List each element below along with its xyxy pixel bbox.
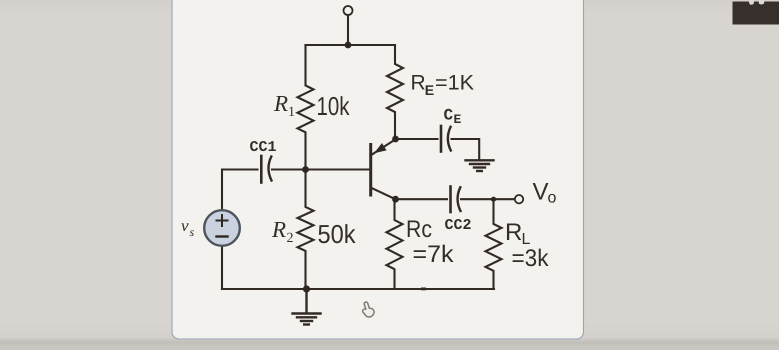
svg-text:2: 2	[287, 231, 294, 246]
svg-text:R: R	[411, 72, 426, 95]
svg-text:=1K: =1K	[435, 72, 474, 95]
wire emitter node to CE	[396, 138, 438, 140]
svg-text:CC1: CC1	[250, 139, 277, 156]
wire top rail	[306, 44, 396, 46]
node R2 bottom	[303, 285, 310, 292]
node RL top	[491, 197, 496, 202]
panel	[172, 0, 584, 339]
svg-text:s: s	[190, 225, 195, 239]
svg-text:CC2: CC2	[445, 217, 472, 234]
svg-text:C: C	[444, 107, 454, 125]
resistor RL	[486, 199, 502, 289]
svg-text:50k: 50k	[318, 219, 357, 249]
svg-text:v: v	[181, 216, 189, 235]
node top rail junction	[345, 42, 352, 49]
svg-text:R: R	[273, 91, 288, 116]
node base junction	[302, 166, 309, 173]
wire vs top	[222, 170, 258, 211]
svg-text:E: E	[425, 82, 434, 98]
wire bottom rail	[222, 288, 494, 290]
terminal Vo	[515, 195, 523, 203]
capacitor CE	[441, 126, 451, 152]
svg-text:R: R	[271, 217, 286, 242]
resistor RC	[387, 199, 403, 289]
wire CC1 to base node	[272, 168, 370, 170]
svg-text:10k: 10k	[317, 91, 351, 121]
transistor Q1	[371, 139, 396, 199]
black corner box	[733, 0, 779, 25]
svg-text:1: 1	[288, 105, 295, 120]
capacitor CC2	[451, 187, 461, 213]
resistor R1	[298, 45, 314, 170]
cursor hand	[363, 302, 374, 317]
node collector	[392, 196, 399, 203]
resistor R2	[298, 170, 314, 290]
svg-text:o: o	[548, 190, 557, 207]
ground main	[293, 289, 321, 325]
svg-text:E: E	[454, 112, 462, 127]
wire collector node to CC2	[396, 198, 448, 200]
terminal VCC top	[344, 6, 353, 15]
svg-text:=3k: =3k	[512, 245, 550, 272]
capacitor CC1	[261, 156, 271, 183]
wire CC2 to Vo	[461, 198, 515, 200]
node small mark bottom rail	[421, 288, 426, 291]
junction dots	[302, 42, 496, 293]
svg-text:V: V	[533, 179, 549, 206]
source vs	[204, 210, 240, 246]
svg-text:Rc: Rc	[406, 216, 432, 243]
wire CE to ground	[452, 139, 480, 159]
svg-text:=7k: =7k	[413, 241, 455, 268]
wire vs bottom	[221, 246, 223, 290]
wire terminal to top rail	[347, 15, 349, 45]
svg-text:R: R	[505, 219, 522, 246]
ground emitter	[466, 160, 494, 171]
node emitter	[392, 136, 399, 143]
resistor RE	[387, 45, 403, 139]
